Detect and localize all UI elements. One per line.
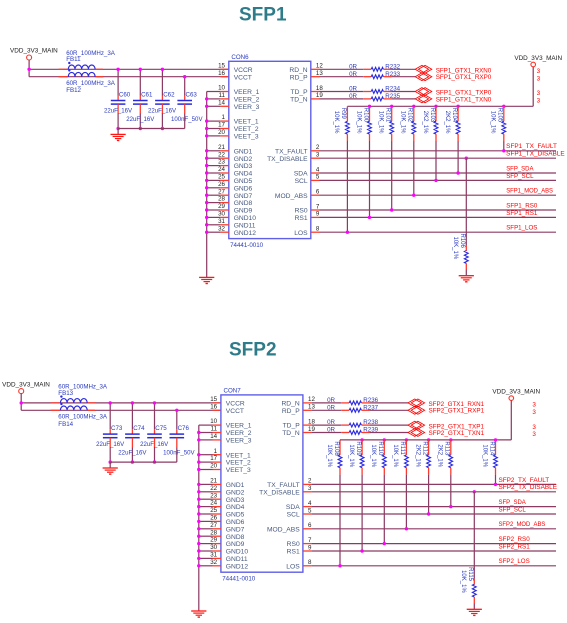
svg-text:VEER_2: VEER_2	[226, 430, 252, 437]
svg-text:RS1: RS1	[287, 549, 300, 556]
svg-text:SFP2_GTX1_RXP1: SFP2_GTX1_RXP1	[429, 408, 485, 415]
svg-text:FB11: FB11	[66, 56, 81, 63]
svg-text:10K_1%: 10K_1%	[490, 111, 496, 134]
svg-text:11: 11	[219, 92, 226, 99]
svg-text:3: 3	[537, 68, 541, 75]
svg-text:GND4: GND4	[234, 171, 253, 178]
svg-text:100nF_50V: 100nF_50V	[163, 450, 195, 457]
svg-text:SFP1_RS0: SFP1_RS0	[506, 202, 538, 209]
svg-text:GND3: GND3	[226, 497, 245, 504]
svg-text:SCL: SCL	[295, 178, 308, 185]
svg-text:23: 23	[218, 159, 225, 166]
svg-text:4: 4	[308, 500, 312, 507]
svg-text:10K_1%: 10K_1%	[348, 444, 354, 467]
svg-text:TX_FAULT: TX_FAULT	[275, 148, 308, 155]
svg-text:74441-0010: 74441-0010	[230, 242, 264, 249]
svg-text:8: 8	[308, 559, 312, 566]
svg-text:SDA: SDA	[286, 504, 300, 511]
svg-text:4: 4	[316, 166, 320, 173]
svg-text:SFP1_TX_DISABLE: SFP1_TX_DISABLE	[506, 151, 565, 158]
svg-text:VEER_3: VEER_3	[226, 438, 252, 445]
svg-text:TD_N: TD_N	[282, 430, 300, 437]
svg-text:GND8: GND8	[226, 534, 245, 541]
svg-text:18: 18	[308, 418, 315, 425]
svg-text:VCCT: VCCT	[234, 74, 252, 81]
svg-text:30: 30	[218, 211, 225, 218]
svg-text:R105: R105	[497, 108, 503, 123]
svg-text:R100: R100	[362, 108, 368, 123]
svg-text:R99: R99	[340, 108, 346, 120]
svg-text:SFP2_TX_DISABLE: SFP2_TX_DISABLE	[499, 484, 558, 491]
svg-text:VDD_3V3_MAIN: VDD_3V3_MAIN	[2, 381, 50, 388]
svg-text:11: 11	[211, 426, 218, 433]
svg-text:R103: R103	[429, 108, 435, 123]
svg-text:MOD_ABS: MOD_ABS	[267, 526, 300, 533]
svg-text:28: 28	[218, 196, 225, 203]
svg-text:GND12: GND12	[234, 230, 257, 237]
svg-text:SFP2_RS0: SFP2_RS0	[499, 536, 531, 543]
svg-text:22uF_16V: 22uF_16V	[118, 450, 147, 457]
svg-text:23: 23	[210, 492, 217, 499]
svg-text:RS1: RS1	[295, 215, 308, 222]
svg-text:VDD_3V3_MAIN: VDD_3V3_MAIN	[514, 55, 562, 62]
svg-text:0R: 0R	[327, 404, 335, 411]
svg-text:26: 26	[218, 181, 225, 188]
svg-text:RD_P: RD_P	[290, 74, 308, 81]
svg-text:R239: R239	[363, 427, 378, 434]
svg-text:GND1: GND1	[226, 482, 245, 489]
svg-text:R234: R234	[385, 86, 400, 93]
svg-text:7: 7	[308, 537, 312, 544]
svg-text:60R_100MHz_3A: 60R_100MHz_3A	[66, 80, 116, 87]
svg-text:RD_P: RD_P	[282, 408, 300, 415]
svg-text:17: 17	[218, 122, 225, 129]
svg-text:25: 25	[210, 507, 217, 514]
svg-text:R236: R236	[363, 397, 378, 404]
svg-text:16: 16	[218, 70, 225, 77]
svg-text:C76: C76	[178, 425, 190, 432]
svg-text:24: 24	[210, 500, 217, 507]
svg-text:SFP2_LOS: SFP2_LOS	[499, 558, 530, 565]
svg-text:3: 3	[532, 409, 536, 416]
svg-text:RD_N: RD_N	[281, 401, 299, 408]
svg-text:R115: R115	[467, 567, 473, 582]
svg-text:3: 3	[532, 424, 536, 431]
svg-text:74441-0010: 74441-0010	[222, 576, 256, 583]
svg-text:R113: R113	[444, 441, 450, 456]
svg-text:19: 19	[316, 92, 323, 99]
svg-text:GND1: GND1	[234, 148, 253, 155]
svg-text:R237: R237	[363, 404, 378, 411]
svg-text:29: 29	[218, 203, 225, 210]
svg-text:SFP1_TX_FAULT: SFP1_TX_FAULT	[506, 143, 557, 150]
svg-text:10K_1%: 10K_1%	[460, 570, 466, 593]
svg-text:RS0: RS0	[295, 208, 308, 215]
svg-text:R235: R235	[385, 93, 400, 100]
svg-text:18: 18	[316, 85, 323, 92]
svg-text:22uF_16V: 22uF_16V	[148, 108, 177, 115]
svg-text:24: 24	[218, 166, 225, 173]
svg-text:15: 15	[210, 396, 217, 403]
svg-text:VEER_2: VEER_2	[234, 97, 260, 104]
svg-text:10: 10	[218, 85, 225, 92]
svg-text:GND3: GND3	[234, 163, 253, 170]
svg-text:30: 30	[210, 544, 217, 551]
svg-text:2K2_1%: 2K2_1%	[414, 444, 420, 467]
svg-text:CON7: CON7	[224, 387, 242, 394]
svg-text:GND5: GND5	[234, 178, 253, 185]
svg-text:2K2_1%: 2K2_1%	[422, 111, 428, 134]
svg-text:10K_1%: 10K_1%	[326, 444, 332, 467]
svg-text:GND6: GND6	[234, 185, 253, 192]
svg-text:SDA: SDA	[294, 171, 308, 178]
svg-text:SFP1_GTX1_RXP0: SFP1_GTX1_RXP0	[436, 74, 492, 81]
svg-text:16: 16	[210, 403, 217, 410]
svg-text:GND11: GND11	[234, 222, 256, 229]
svg-text:TX_FAULT: TX_FAULT	[267, 482, 300, 489]
svg-text:12: 12	[316, 63, 323, 70]
svg-text:R233: R233	[385, 71, 400, 78]
svg-text:GND2: GND2	[234, 156, 253, 163]
svg-text:GND12: GND12	[226, 563, 249, 570]
svg-text:SFP2: SFP2	[229, 339, 277, 360]
svg-text:CON6: CON6	[231, 54, 249, 61]
svg-text:0R: 0R	[349, 93, 357, 100]
svg-text:10: 10	[210, 418, 217, 425]
svg-text:6: 6	[308, 522, 312, 529]
svg-text:8: 8	[316, 226, 320, 233]
svg-text:22: 22	[218, 151, 225, 158]
svg-text:R111: R111	[399, 441, 405, 455]
svg-text:GND6: GND6	[226, 519, 245, 526]
svg-text:GND9: GND9	[226, 541, 245, 548]
svg-text:22: 22	[210, 485, 217, 492]
svg-text:SFP1_LOS: SFP1_LOS	[506, 225, 537, 232]
svg-text:GND9: GND9	[234, 208, 253, 215]
svg-text:SCL: SCL	[287, 512, 300, 519]
svg-text:FB13: FB13	[58, 390, 73, 397]
svg-text:10K_1%: 10K_1%	[333, 111, 339, 134]
svg-text:22uF_16V: 22uF_16V	[126, 116, 155, 123]
svg-text:0R: 0R	[327, 419, 335, 426]
svg-text:6: 6	[316, 189, 320, 196]
svg-text:27: 27	[218, 188, 225, 195]
svg-text:19: 19	[308, 426, 315, 433]
svg-text:5: 5	[316, 174, 320, 181]
svg-text:C75: C75	[155, 425, 167, 432]
svg-text:C63: C63	[186, 92, 198, 99]
svg-text:9: 9	[308, 544, 312, 551]
svg-text:R106: R106	[459, 234, 465, 249]
svg-text:GND8: GND8	[234, 200, 253, 207]
svg-text:R110: R110	[377, 441, 383, 456]
svg-text:SFP2_MOD_ABS: SFP2_MOD_ABS	[499, 521, 546, 528]
svg-text:MOD_ABS: MOD_ABS	[275, 193, 308, 200]
svg-text:13: 13	[316, 70, 323, 77]
svg-text:VEET_1: VEET_1	[226, 452, 251, 459]
svg-text:3: 3	[532, 431, 536, 438]
svg-text:3: 3	[537, 75, 541, 82]
svg-text:3: 3	[308, 485, 312, 492]
svg-text:GND11: GND11	[226, 556, 248, 563]
svg-text:3: 3	[532, 402, 536, 409]
svg-text:GND10: GND10	[234, 215, 257, 222]
svg-text:SFP_SDA: SFP_SDA	[499, 499, 527, 506]
svg-text:22uF_16V: 22uF_16V	[104, 108, 133, 115]
svg-text:TD_P: TD_P	[283, 423, 301, 430]
svg-text:SFP2_TX_FAULT: SFP2_TX_FAULT	[499, 477, 550, 484]
svg-text:13: 13	[308, 404, 315, 411]
svg-text:3: 3	[537, 90, 541, 97]
svg-text:7: 7	[316, 203, 320, 210]
svg-text:10K_1%: 10K_1%	[392, 444, 398, 467]
svg-text:TD_P: TD_P	[290, 89, 308, 96]
svg-text:VEET_2: VEET_2	[226, 460, 251, 467]
svg-text:21: 21	[210, 478, 217, 485]
svg-text:60R_100MHz_3A: 60R_100MHz_3A	[58, 414, 108, 421]
svg-text:0R: 0R	[349, 63, 357, 70]
svg-text:VCCT: VCCT	[226, 408, 244, 415]
svg-text:SFP1: SFP1	[239, 4, 287, 25]
svg-text:VEET_2: VEET_2	[234, 126, 259, 133]
svg-text:VCCR: VCCR	[234, 67, 253, 74]
svg-text:FB14: FB14	[58, 421, 73, 428]
svg-text:1: 1	[214, 448, 218, 455]
svg-text:5: 5	[308, 507, 312, 514]
svg-text:12: 12	[308, 396, 315, 403]
svg-text:25: 25	[218, 174, 225, 181]
svg-text:1: 1	[222, 114, 226, 121]
svg-text:VEET_1: VEET_1	[234, 119, 259, 126]
svg-text:GND2: GND2	[226, 489, 245, 496]
svg-text:VEER_1: VEER_1	[226, 423, 252, 430]
svg-text:R114: R114	[488, 441, 494, 456]
svg-text:2K2_1%: 2K2_1%	[437, 444, 443, 467]
svg-text:SFP1_GTX1_TXN0: SFP1_GTX1_TXN0	[436, 96, 492, 103]
svg-text:SFP2_RS1: SFP2_RS1	[499, 543, 531, 550]
svg-text:10K_1%: 10K_1%	[452, 237, 458, 260]
svg-text:R232: R232	[385, 63, 400, 70]
svg-text:SFP_SCL: SFP_SCL	[506, 173, 534, 180]
svg-text:20: 20	[210, 463, 217, 470]
svg-text:SFP_SDA: SFP_SDA	[506, 165, 534, 172]
svg-text:10K_1%: 10K_1%	[378, 111, 384, 134]
svg-text:LOS: LOS	[286, 563, 300, 570]
svg-text:0R: 0R	[327, 427, 335, 434]
svg-text:VEET_3: VEET_3	[226, 467, 251, 474]
svg-text:GND7: GND7	[226, 526, 245, 533]
svg-text:2K2_1%: 2K2_1%	[444, 111, 450, 134]
svg-text:VDD_3V3_MAIN: VDD_3V3_MAIN	[10, 48, 58, 55]
svg-text:TD_N: TD_N	[290, 97, 308, 104]
svg-text:14: 14	[218, 99, 225, 106]
svg-text:SFP1_MOD_ABS: SFP1_MOD_ABS	[506, 188, 553, 195]
svg-text:VDD_3V3_MAIN: VDD_3V3_MAIN	[492, 389, 540, 396]
svg-text:R238: R238	[363, 419, 378, 426]
svg-text:9: 9	[316, 211, 320, 218]
svg-text:GND10: GND10	[226, 549, 249, 556]
svg-text:28: 28	[210, 529, 217, 536]
svg-text:3: 3	[316, 152, 320, 159]
svg-text:C61: C61	[141, 92, 153, 99]
svg-text:10K_1%: 10K_1%	[481, 444, 487, 467]
svg-text:17: 17	[210, 455, 217, 462]
svg-text:VEET_3: VEET_3	[234, 134, 259, 141]
svg-text:SFP2_GTX1_TXN1: SFP2_GTX1_TXN1	[429, 430, 485, 437]
svg-text:VEER_1: VEER_1	[234, 89, 260, 96]
svg-text:C62: C62	[163, 92, 175, 99]
svg-text:VEER_3: VEER_3	[234, 104, 260, 111]
svg-text:RD_N: RD_N	[289, 67, 307, 74]
svg-text:RS0: RS0	[287, 541, 300, 548]
svg-text:GND5: GND5	[226, 512, 245, 519]
svg-text:VCCR: VCCR	[226, 401, 245, 408]
svg-text:TX_DISABLE: TX_DISABLE	[267, 156, 308, 163]
svg-text:C60: C60	[119, 92, 131, 99]
svg-text:31: 31	[210, 552, 217, 559]
svg-text:26: 26	[210, 515, 217, 522]
svg-text:SFP_SCL: SFP_SCL	[499, 506, 527, 513]
svg-text:R109: R109	[355, 441, 361, 456]
svg-text:10K_1%: 10K_1%	[355, 111, 361, 134]
svg-text:29: 29	[210, 537, 217, 544]
svg-text:100nF_50V: 100nF_50V	[171, 116, 203, 123]
svg-text:C74: C74	[133, 425, 145, 432]
svg-text:FB12: FB12	[66, 87, 81, 94]
svg-text:20: 20	[218, 129, 225, 136]
svg-text:0R: 0R	[349, 71, 357, 78]
svg-text:R102: R102	[407, 108, 413, 123]
svg-text:SFP1_RS1: SFP1_RS1	[506, 210, 538, 217]
svg-text:2: 2	[308, 478, 312, 485]
svg-text:GND7: GND7	[234, 193, 253, 200]
svg-text:31: 31	[218, 218, 225, 225]
svg-text:C73: C73	[111, 425, 123, 432]
svg-text:0R: 0R	[327, 397, 335, 404]
svg-text:R108: R108	[333, 441, 339, 456]
svg-text:14: 14	[210, 433, 217, 440]
svg-text:21: 21	[218, 144, 225, 151]
svg-text:10K_1%: 10K_1%	[400, 111, 406, 134]
svg-text:2: 2	[316, 144, 320, 151]
svg-text:LOS: LOS	[294, 230, 308, 237]
svg-text:10K_1%: 10K_1%	[370, 444, 376, 467]
svg-text:0R: 0R	[349, 86, 357, 93]
svg-text:22uF_16V: 22uF_16V	[140, 441, 169, 448]
svg-text:3: 3	[537, 98, 541, 105]
svg-text:27: 27	[210, 522, 217, 529]
svg-text:TX_DISABLE: TX_DISABLE	[259, 489, 300, 496]
svg-text:32: 32	[210, 559, 217, 566]
svg-text:GND4: GND4	[226, 504, 245, 511]
svg-text:22uF_16V: 22uF_16V	[96, 441, 125, 448]
svg-text:R112: R112	[421, 441, 427, 456]
svg-text:R104: R104	[451, 108, 457, 123]
svg-text:15: 15	[218, 62, 225, 69]
svg-text:32: 32	[218, 225, 225, 232]
svg-text:R101: R101	[385, 108, 391, 123]
